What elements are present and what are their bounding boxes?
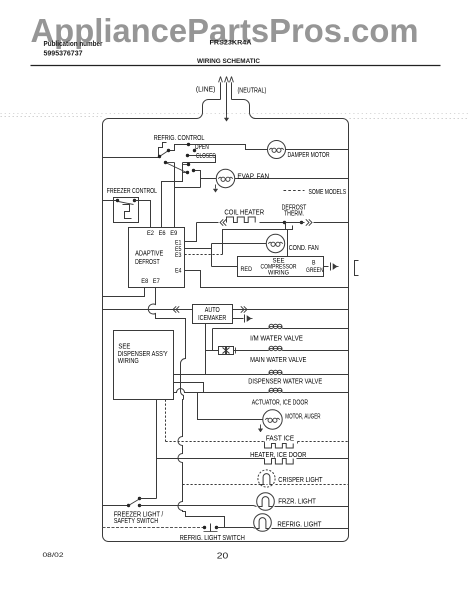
svg-text:(LINE): (LINE) — [196, 87, 216, 94]
svg-text:I/M WATER VALVE: I/M WATER VALVE — [250, 336, 303, 343]
svg-text:08/02: 08/02 — [43, 552, 64, 559]
svg-text:Publication number: Publication number — [44, 41, 103, 48]
svg-text:ICEMAKER: ICEMAKER — [198, 315, 226, 322]
svg-text:DEFROST: DEFROST — [135, 259, 160, 266]
svg-text:SOME MODELS: SOME MODELS — [309, 189, 347, 196]
svg-text:ACTUATOR, ICE DOOR: ACTUATOR, ICE DOOR — [252, 400, 308, 407]
svg-text:5995376737: 5995376737 — [44, 48, 83, 57]
svg-text:B: B — [312, 260, 316, 267]
svg-text:COND. FAN: COND. FAN — [289, 245, 319, 252]
svg-text:SAFETY SWITCH: SAFETY SWITCH — [114, 518, 159, 525]
svg-text:20: 20 — [217, 551, 229, 561]
svg-text:E9: E9 — [170, 230, 177, 237]
svg-text:E7: E7 — [153, 278, 160, 285]
svg-text:WIRING: WIRING — [268, 269, 289, 276]
svg-text:CLOSED: CLOSED — [196, 153, 216, 160]
svg-text:E8: E8 — [141, 278, 148, 285]
svg-text:REFRIG. CONTROL: REFRIG. CONTROL — [154, 135, 205, 142]
svg-text:AUTO: AUTO — [205, 307, 220, 314]
svg-text:E2: E2 — [147, 230, 154, 237]
svg-text:GREEN: GREEN — [306, 267, 324, 274]
svg-text:(NEUTRAL): (NEUTRAL) — [238, 88, 267, 95]
svg-text:FREEZER CONTROL: FREEZER CONTROL — [107, 188, 157, 195]
svg-text:THERM.: THERM. — [284, 211, 304, 218]
svg-text:SEE: SEE — [118, 344, 130, 351]
svg-text:FRZR. LIGHT: FRZR. LIGHT — [278, 499, 316, 506]
svg-text:CRISPER LIGHT: CRISPER LIGHT — [278, 477, 323, 484]
svg-text:E6: E6 — [159, 230, 166, 237]
svg-text:WIRING SCHEMATIC: WIRING SCHEMATIC — [197, 58, 260, 65]
svg-text:EVAP. FAN: EVAP. FAN — [237, 174, 269, 181]
svg-text:WIRING: WIRING — [118, 358, 139, 365]
svg-text:HEATER, ICE DOOR: HEATER, ICE DOOR — [250, 452, 306, 459]
svg-text:FRS23KR4A: FRS23KR4A — [210, 40, 252, 47]
svg-text:E4: E4 — [175, 268, 182, 275]
svg-text:E3: E3 — [175, 252, 182, 259]
svg-text:REFRIG. LIGHT SWITCH: REFRIG. LIGHT SWITCH — [180, 535, 245, 542]
svg-text:DISPENSER WATER VALVE: DISPENSER WATER VALVE — [248, 379, 322, 386]
svg-text:MAIN WATER VALVE: MAIN WATER VALVE — [250, 357, 307, 364]
svg-text:DISPENSER ASS'Y: DISPENSER ASS'Y — [118, 351, 168, 358]
svg-text:COIL HEATER: COIL HEATER — [224, 210, 264, 217]
svg-text:FAST ICE: FAST ICE — [266, 436, 294, 443]
svg-text:DAMPER MOTOR: DAMPER MOTOR — [288, 152, 330, 159]
svg-text:RED: RED — [241, 266, 253, 273]
svg-text:MOTOR, AUGER: MOTOR, AUGER — [285, 414, 320, 421]
svg-text:ADAPTIVE: ADAPTIVE — [135, 251, 163, 258]
svg-text:REFRIG. LIGHT: REFRIG. LIGHT — [277, 522, 322, 529]
